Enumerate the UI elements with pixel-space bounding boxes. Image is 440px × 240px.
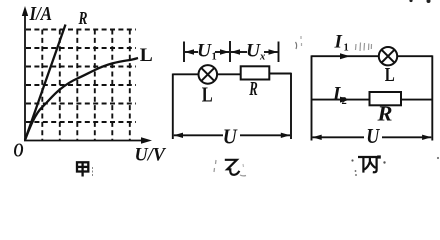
svg-text:U: U xyxy=(246,41,261,62)
svg-text:O: O xyxy=(14,141,24,162)
svg-text:I: I xyxy=(332,84,341,105)
svg-text:L: L xyxy=(385,65,395,86)
svg-text:I/A: I/A xyxy=(29,4,52,25)
svg-text:R: R xyxy=(249,78,258,100)
svg-text:L: L xyxy=(140,46,153,66)
svg-text:I: I xyxy=(334,32,343,53)
svg-text:L: L xyxy=(202,83,213,107)
svg-text:U: U xyxy=(366,124,380,148)
svg-text:R: R xyxy=(78,8,88,28)
svg-text:x: x xyxy=(259,52,265,63)
svg-text:U/V: U/V xyxy=(135,145,167,166)
svg-text:1: 1 xyxy=(212,52,217,63)
svg-text:1: 1 xyxy=(344,43,349,54)
svg-text:2: 2 xyxy=(342,96,347,107)
svg-text:U: U xyxy=(223,125,239,149)
svg-text:U: U xyxy=(197,41,212,62)
svg-text:R: R xyxy=(376,102,392,126)
